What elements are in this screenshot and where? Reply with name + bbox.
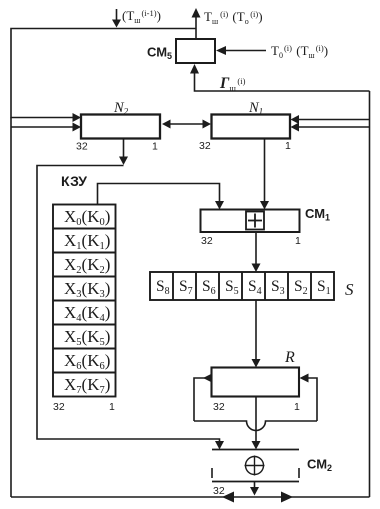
arrowhead on left feedback bbox=[203, 374, 212, 383]
svg-text:R: R bbox=[284, 349, 295, 366]
register N1 bbox=[212, 115, 291, 139]
arrowhead left on bottom bus bbox=[222, 492, 234, 503]
adder CM1 bbox=[201, 210, 300, 233]
svg-text:1: 1 bbox=[109, 401, 115, 413]
CM2 right side tick bbox=[298, 468, 300, 478]
svg-text:32: 32 bbox=[201, 235, 213, 247]
wire CM1 to S block bbox=[255, 232, 257, 266]
CM2 left side tick bbox=[211, 468, 213, 478]
arrow into N2 right edge bbox=[162, 120, 171, 129]
wire Gamma_sh(i) from right vertical into CM5 bottom bbox=[195, 72, 370, 91]
wire CM2 output down bbox=[254, 482, 256, 490]
arrow into CM2 top (left) bbox=[215, 441, 224, 450]
input arrow T_sh(i-1) bbox=[112, 9, 121, 28]
arrow into R right edge bbox=[300, 374, 309, 383]
svg-text:32: 32 bbox=[213, 401, 225, 413]
adder CM5 bbox=[176, 39, 215, 63]
exchange wire between N2 and N1 bbox=[166, 123, 207, 125]
wire N2 bottom down bbox=[123, 139, 125, 159]
wire stub into N1 lower-right bbox=[297, 126, 370, 128]
wire N1 bottom to CM1 bbox=[264, 139, 266, 204]
wire R output to CM2 bbox=[255, 397, 257, 444]
svg-text:1: 1 bbox=[285, 140, 291, 152]
bottom bus wire bbox=[11, 496, 370, 498]
arrow into CM1 top (left) bbox=[215, 201, 224, 210]
arrow into CM5 bottom bbox=[190, 64, 199, 74]
svg-text:32: 32 bbox=[76, 141, 88, 153]
XOR symbol of CM2 bbox=[245, 456, 265, 476]
arrow into CM1 top (right) bbox=[260, 201, 269, 210]
feedback bottom wire with hop over output bbox=[194, 421, 317, 431]
boxed plus symbol of CM1 bbox=[246, 212, 264, 230]
wire stub into N1 upper-right bbox=[297, 119, 370, 121]
svg-text:КЗУ: КЗУ bbox=[61, 173, 87, 189]
substitution block S bbox=[150, 272, 334, 300]
arrow into CM2 top (right) bbox=[252, 441, 261, 450]
key storage register stack X0..X7 bbox=[53, 205, 116, 397]
feedback wire right of R bbox=[302, 378, 317, 421]
output arrow T_sh(i) bbox=[192, 8, 201, 39]
register N2 bbox=[81, 115, 160, 139]
feedback wire left of R bbox=[194, 378, 212, 421]
svg-text:32: 32 bbox=[199, 140, 211, 152]
arrow into N1 left edge bbox=[203, 120, 212, 129]
adder CM2 top edge bbox=[212, 449, 299, 451]
svg-text:1: 1 bbox=[152, 141, 158, 153]
arrow into N2 lower-left bbox=[73, 123, 82, 132]
wire: left feedback vertical from bottom line to N2 lower input bbox=[10, 118, 12, 498]
input T_0(i) wire into CM5 right bbox=[224, 50, 266, 52]
arrow into S4 bbox=[252, 264, 261, 273]
svg-text:1: 1 bbox=[294, 401, 300, 413]
arrow into R bbox=[252, 359, 261, 368]
shift register R bbox=[212, 368, 300, 397]
wire S to R bbox=[255, 300, 257, 361]
svg-text:1: 1 bbox=[295, 235, 301, 247]
arrow onto bottom bus bbox=[250, 487, 259, 496]
svg-text:32: 32 bbox=[53, 401, 65, 413]
arrow onto routing wire bbox=[119, 157, 128, 166]
wire: top loop from T_sh(i-1) to N2 upper input bbox=[11, 29, 196, 118]
arrow into CM5 right edge bbox=[216, 46, 226, 55]
svg-text:S: S bbox=[345, 280, 354, 299]
arrow into N2 upper-left bbox=[73, 113, 82, 122]
svg-text:32: 32 bbox=[213, 485, 225, 497]
adder CM2 bottom edge bbox=[212, 481, 299, 483]
arrow into N1 upper-right bbox=[291, 115, 300, 124]
arrowhead right on bottom bus bbox=[281, 492, 293, 503]
wire: right vertical bus bbox=[369, 91, 371, 497]
wire N2 routed around KZU to CM2 left input bbox=[37, 166, 220, 444]
wire KZU output to CM1 bbox=[98, 184, 220, 205]
arrow into N1 lower-right bbox=[291, 123, 300, 132]
